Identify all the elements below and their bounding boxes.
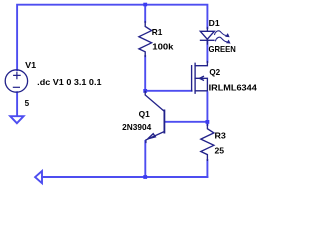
svg-text:D1: D1 <box>209 19 221 28</box>
svg-text:R1: R1 <box>152 28 163 37</box>
svg-text:V1: V1 <box>25 61 37 70</box>
svg-text:GREEN: GREEN <box>209 45 236 54</box>
svg-text:Q2: Q2 <box>209 68 220 77</box>
svg-text:IRLML6344: IRLML6344 <box>209 84 258 93</box>
svg-text:100k: 100k <box>152 42 174 51</box>
svg-text:2N3904: 2N3904 <box>122 123 152 132</box>
svg-text:5: 5 <box>25 99 30 108</box>
svg-text:R3: R3 <box>215 131 227 140</box>
svg-text:Q1: Q1 <box>139 110 151 119</box>
svg-text:25: 25 <box>215 146 225 155</box>
svg-text:.dc V1 0 3.1 0.1: .dc V1 0 3.1 0.1 <box>37 78 102 87</box>
